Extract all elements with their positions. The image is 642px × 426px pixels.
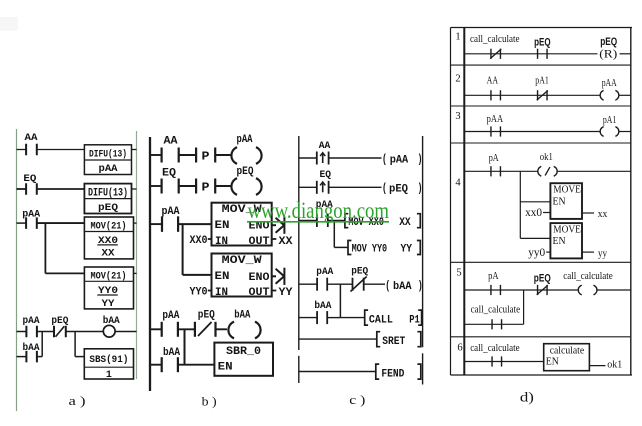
svg-text:pAA: pAA xyxy=(162,310,179,322)
contact pAA (c row3) xyxy=(317,214,328,227)
wire pAA to pEQ xyxy=(37,331,54,333)
svg-text:IN: IN xyxy=(215,287,228,299)
coil pAA (b) xyxy=(231,147,261,164)
branch wire (c row4-5) xyxy=(339,284,341,317)
svg-text:OUT: OUT xyxy=(249,236,270,248)
svg-text:pAA: pAA xyxy=(390,154,409,166)
box SBR_0 xyxy=(214,343,273,376)
svg-text:ok1: ok1 xyxy=(540,152,553,163)
svg-text:xx0: xx0 xyxy=(525,207,542,219)
svg-text:4: 4 xyxy=(455,178,461,189)
output OUT to YY box2 xyxy=(272,290,277,292)
section a: right power rail (green) xyxy=(136,131,138,379)
contact pA1 NC rung2 xyxy=(537,90,548,100)
svg-text:pAA: pAA xyxy=(99,163,119,175)
contact pA rung4 xyxy=(491,166,501,176)
svg-text:EN: EN xyxy=(553,235,566,247)
wire rung4 xyxy=(464,170,540,172)
contact pEQ rung1 xyxy=(538,49,548,59)
svg-text:pEQ: pEQ xyxy=(51,315,68,327)
contact bAA (b row5) xyxy=(162,357,178,372)
watermark www.diangon.com xyxy=(247,198,389,223)
contact AA rising edge (c) xyxy=(317,152,329,165)
section d: outer frame xyxy=(451,28,633,376)
branch wire down to MOV_W box2 xyxy=(182,224,184,275)
coil bAA (b) xyxy=(228,322,260,339)
section c: left power rail (lower segment) xyxy=(298,356,300,383)
wire rail to pAA (c row4) xyxy=(299,283,317,285)
svg-text:XX: XX xyxy=(102,248,116,260)
wire rail to FEND xyxy=(299,371,376,373)
wire rung1 xyxy=(464,53,597,55)
box SBS(91)/1 xyxy=(84,349,133,381)
wire P to coil pAA xyxy=(215,154,231,156)
wire parallel rung5 xyxy=(464,323,523,325)
wire EQ to P contact xyxy=(179,185,196,187)
wire rail to contact pAA row4 xyxy=(17,331,27,333)
svg-text:EN: EN xyxy=(553,195,566,207)
coil pAA rung2 xyxy=(600,89,619,101)
svg-text:EQ: EQ xyxy=(162,168,176,180)
rung separator 5-6 xyxy=(451,336,632,338)
contact AA (b) xyxy=(162,148,179,163)
svg-text:pAA: pAA xyxy=(316,266,334,278)
svg-text:SBS(91): SBS(91) xyxy=(89,354,128,366)
output wire xx box1 xyxy=(582,212,594,214)
contact pAA (b row3) xyxy=(162,216,178,232)
svg-text:5: 5 xyxy=(456,268,461,279)
box MOVE 1 xyxy=(550,183,582,219)
contact EQ (b) xyxy=(162,179,179,194)
svg-text:yy0: yy0 xyxy=(528,247,545,259)
contact pEQ NC (b row4) xyxy=(195,322,216,337)
svg-text:): ) xyxy=(418,182,423,195)
wire pAA to pEQ (c row4) xyxy=(327,283,352,285)
contact pEQ NC (c row4) xyxy=(351,277,367,292)
svg-text:DIFU(13): DIFU(13) xyxy=(88,188,128,200)
wire rail to contact pAA (b) xyxy=(150,223,162,225)
svg-text:YY: YY xyxy=(102,298,116,310)
arrow ENO box2 xyxy=(276,268,285,285)
wire contact bAA to branch xyxy=(37,356,42,358)
wire rail to contact EQ (b) xyxy=(150,185,162,187)
wire rail to contact EQ (c) xyxy=(299,186,317,188)
wire contact to MOV_W box1 EN xyxy=(178,223,211,225)
instruction [MOV YY0 YY] xyxy=(348,241,420,256)
svg-text:EN: EN xyxy=(215,271,230,283)
contact bAA (c row5) xyxy=(317,311,327,324)
svg-text:bAA: bAA xyxy=(393,281,412,293)
coil pAA text (c) xyxy=(382,153,423,166)
section d: right power rail xyxy=(630,28,632,376)
box MOV(21) YY0/YY xyxy=(84,267,133,310)
svg-text:pEQ: pEQ xyxy=(351,266,368,278)
wire rail to contact AA xyxy=(17,149,27,151)
contact EQ rising edge (c) xyxy=(317,181,329,194)
svg-text:MOV YY0: MOV YY0 xyxy=(352,244,388,256)
svg-text:pA: pA xyxy=(489,153,499,164)
svg-text:XX: XX xyxy=(279,236,293,248)
svg-text:pA1: pA1 xyxy=(535,76,549,87)
instruction [CALL P1] xyxy=(365,310,422,326)
svg-text:MOV(21): MOV(21) xyxy=(91,271,127,283)
contact pEQ (NC) row4 xyxy=(54,326,66,338)
svg-text:(: ( xyxy=(382,182,387,195)
coil pEQ (b) xyxy=(231,178,261,195)
instruction [SRET] xyxy=(377,332,421,348)
svg-text:YY: YY xyxy=(279,287,293,299)
svg-text:pEQ: pEQ xyxy=(534,37,551,49)
branch wire down to SBS box xyxy=(74,332,76,357)
wire pEQ to coil bAA (c) xyxy=(364,283,385,285)
branch wire rung5 xyxy=(523,290,525,324)
svg-text:XX: XX xyxy=(399,217,411,229)
svg-text:MOV_W: MOV_W xyxy=(222,255,262,267)
box MOV(21) XX0/XX xyxy=(84,217,133,260)
svg-text:DIFU(13): DIFU(13) xyxy=(89,149,127,161)
branch wire parallel bAA xyxy=(41,332,43,357)
svg-text:P: P xyxy=(202,150,210,163)
svg-text:www.diangon.com: www.diangon.com xyxy=(248,198,390,223)
svg-text:SRET: SRET xyxy=(382,336,405,348)
svg-text:(: ( xyxy=(385,280,390,293)
svg-text:pEQ: pEQ xyxy=(237,166,254,178)
wire rail to contact bAA xyxy=(17,356,27,358)
svg-text:pAA: pAA xyxy=(22,208,41,220)
rung separator 1-2 xyxy=(451,64,632,66)
wire rail to contact pAA (c) xyxy=(299,220,317,222)
svg-text:c ): c ) xyxy=(349,392,365,407)
contact pAA (b row4) xyxy=(162,322,178,337)
section b: left power rail xyxy=(149,137,151,391)
contact pEQ NC rung5 xyxy=(537,285,548,295)
svg-text:AA: AA xyxy=(319,140,331,152)
wire pEQ to coil bAA xyxy=(216,328,228,330)
stub MOV box1 to right rail xyxy=(134,222,137,224)
svg-text:CALL: CALL xyxy=(369,314,393,326)
rung separator 3-4 xyxy=(451,142,632,144)
section a: left power rail (green) xyxy=(16,129,18,411)
svg-text:SBR_0: SBR_0 xyxy=(226,346,261,358)
svg-text:3: 3 xyxy=(455,111,460,122)
svg-text:calculate: calculate xyxy=(550,345,585,356)
svg-text:(: ( xyxy=(382,153,387,166)
svg-text:pEQ: pEQ xyxy=(389,183,408,195)
wire P to coil pEQ xyxy=(215,185,231,187)
contact P (edge) row1 xyxy=(196,148,215,164)
instruction [FEND] xyxy=(376,364,421,380)
rung separator 2-3 xyxy=(451,105,632,107)
wire bAA to branch (c) xyxy=(327,317,340,319)
contact call_calculate NC rung1 xyxy=(490,49,501,59)
svg-text:call_calculate: call_calculate xyxy=(470,343,520,354)
wire bAA to SBR box xyxy=(178,364,215,366)
coil bAA text (c) xyxy=(385,280,423,293)
svg-text:YY0: YY0 xyxy=(190,286,208,298)
wire rail to contact AA (c) xyxy=(299,157,317,159)
section c: right power rail (lower segment) xyxy=(422,353,424,384)
wire rail to bAA (c row5) xyxy=(299,317,317,319)
svg-text:1: 1 xyxy=(106,369,112,381)
svg-text:(R): (R) xyxy=(599,48,617,60)
wire rung2 xyxy=(464,94,602,96)
wire branch to CALL (c) xyxy=(340,317,365,319)
wire contact pAA to MOV box xyxy=(37,222,85,224)
stub DIFU pEQ box to right rail xyxy=(132,188,137,190)
svg-text:): ) xyxy=(418,153,423,166)
svg-text:OUT: OUT xyxy=(249,287,270,299)
svg-text:EN: EN xyxy=(218,361,233,373)
svg-text:): ) xyxy=(418,280,423,293)
coil pEQ text (c) xyxy=(382,182,423,195)
wire coil to right rail xyxy=(115,331,136,333)
wire rung3 xyxy=(464,131,602,133)
wire rail to contact AA (b) xyxy=(150,154,162,156)
ENO wire box1 xyxy=(272,224,276,226)
contact P (edge) row2 xyxy=(196,179,215,195)
coil bAA (circle) xyxy=(103,325,115,337)
coil call_calculate rung5 xyxy=(578,284,597,296)
output OUT to XX box1 xyxy=(272,238,277,240)
svg-text:YY: YY xyxy=(401,244,413,256)
contact call_calculate rung5 xyxy=(492,319,502,329)
section c: left power rail (upper segment) xyxy=(298,136,300,350)
svg-text:AA: AA xyxy=(164,136,178,148)
svg-text:ok1: ok1 xyxy=(607,359,622,371)
branch wire down to second MOV box xyxy=(44,223,46,273)
wire rail to contact bAA (b) xyxy=(150,364,162,366)
svg-text:pEQ: pEQ xyxy=(600,36,617,48)
output wire ok1 rung6 xyxy=(589,365,605,367)
wire rail to pAA (b row4) xyxy=(150,328,162,330)
svg-text:call_calculate: call_calculate xyxy=(471,304,521,315)
svg-text:FEND: FEND xyxy=(381,368,404,380)
svg-text:AA: AA xyxy=(25,132,39,144)
svg-text:ENO: ENO xyxy=(249,272,270,284)
branch wire parallel bAA (b) xyxy=(184,329,186,364)
wire contact EQ to DIFU box xyxy=(37,188,85,190)
svg-text:6: 6 xyxy=(457,342,462,353)
box MOV_W 1 xyxy=(212,203,272,248)
svg-text:AA: AA xyxy=(487,75,499,86)
wire contact AA to coil pAA (c) xyxy=(329,157,382,159)
svg-text:pA1: pA1 xyxy=(603,115,617,126)
svg-text:XX0: XX0 xyxy=(190,235,208,247)
svg-text:MOVE: MOVE xyxy=(553,223,581,235)
coil pEQ reset (R) xyxy=(598,48,619,61)
svg-text:pAA: pAA xyxy=(23,315,41,327)
contact AA rung2 xyxy=(491,90,501,100)
contact pAA rung3 xyxy=(491,126,501,136)
box DIFU(13)/pAA xyxy=(84,145,131,175)
contact pAA (c row4) xyxy=(317,278,327,291)
svg-text:b ): b ) xyxy=(202,394,217,409)
svg-text:call_calculate: call_calculate xyxy=(563,271,613,282)
svg-text:EN: EN xyxy=(215,220,230,232)
svg-text:pEQ: pEQ xyxy=(98,202,118,214)
branch wire to MOVE boxes xyxy=(519,171,521,238)
contact call_calculate rung6 xyxy=(492,356,502,366)
box calculate xyxy=(544,344,590,371)
svg-text:pEQ: pEQ xyxy=(198,310,215,322)
wire rung6 xyxy=(464,361,543,363)
wire contact EQ to coil pEQ (c) xyxy=(329,186,382,188)
svg-text:MOVE: MOVE xyxy=(553,184,581,196)
svg-text:pA: pA xyxy=(488,271,499,282)
svg-text:P: P xyxy=(202,181,210,194)
svg-text:pEQ: pEQ xyxy=(534,273,551,285)
box DIFU(13)/pEQ xyxy=(84,184,131,214)
stub DIFU box to right rail xyxy=(132,149,137,151)
svg-text:a ): a ) xyxy=(69,393,86,408)
box MOVE 2 xyxy=(550,223,582,258)
ENO wire box2 xyxy=(272,275,276,277)
wire rail to contact pAA xyxy=(17,222,27,224)
wire to MOVE box1 EN xyxy=(520,201,550,203)
contact pAA row4 xyxy=(26,326,37,338)
svg-text:pAA: pAA xyxy=(602,78,617,89)
contact pAA row3 xyxy=(26,217,37,229)
svg-text:call_calculate: call_calculate xyxy=(470,34,520,45)
svg-text:xx: xx xyxy=(598,208,608,220)
section d: left power rail xyxy=(463,28,465,376)
wire AA to P contact xyxy=(179,154,196,156)
svg-text:MOV(21): MOV(21) xyxy=(91,221,127,233)
box MOV_W 2 xyxy=(212,254,272,300)
svg-text:bAA: bAA xyxy=(314,300,332,312)
faint scan smudge top-left xyxy=(0,17,18,31)
output wire yy box2 xyxy=(582,251,594,253)
wire contact AA to DIFU box xyxy=(37,149,85,151)
svg-text:1: 1 xyxy=(455,32,460,43)
contact AA xyxy=(26,144,37,156)
svg-text:IN: IN xyxy=(215,236,228,248)
wire rail to contact EQ xyxy=(17,188,27,190)
stub MOV box2 to right rail xyxy=(134,272,137,274)
wire contact pAA to MOV instruction xyxy=(328,220,345,222)
svg-text:pAA: pAA xyxy=(487,114,504,125)
contact pA rung5 xyxy=(491,285,501,295)
coil pA1 rung3 xyxy=(600,126,619,138)
instruction [MOV XX0 XX] xyxy=(345,214,420,229)
svg-text:bAA: bAA xyxy=(234,309,250,321)
wire rail to SRET xyxy=(299,338,377,340)
coil ok1 negated (/) xyxy=(537,165,557,177)
svg-text:d): d) xyxy=(520,389,534,404)
svg-text:EN: EN xyxy=(546,357,559,368)
wire pEQ to coil xyxy=(66,331,104,333)
section c: right power rail (upper segment) xyxy=(422,136,424,347)
contact bAA row5 xyxy=(26,351,37,363)
svg-text:pAA: pAA xyxy=(237,134,253,146)
wire rung5 xyxy=(464,289,581,291)
contact EQ xyxy=(26,183,37,195)
svg-text:yy: yy xyxy=(598,248,607,260)
svg-text:EQ: EQ xyxy=(320,169,332,181)
branch wire down to MOV YY0 (c) xyxy=(333,221,335,248)
arrow ENO box1 xyxy=(276,217,285,234)
svg-text:2: 2 xyxy=(455,73,460,84)
wire to MOVE box2 EN xyxy=(520,237,550,239)
rung separator 4-5 xyxy=(451,261,632,263)
wire pAA to pEQ (b row4) xyxy=(178,328,195,330)
